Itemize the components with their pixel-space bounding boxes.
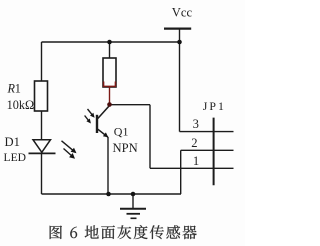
svg-text:Vcc: Vcc xyxy=(172,6,193,20)
svg-text:NPN: NPN xyxy=(113,141,138,155)
svg-text:1: 1 xyxy=(193,154,199,168)
svg-text:1: 1 xyxy=(15,81,21,95)
svg-text:3: 3 xyxy=(193,117,199,131)
svg-text:LED: LED xyxy=(4,151,27,164)
svg-text:Q1: Q1 xyxy=(114,124,129,138)
svg-text:JP1: JP1 xyxy=(203,99,226,113)
svg-text:2: 2 xyxy=(191,136,197,150)
svg-text:D1: D1 xyxy=(5,135,20,149)
svg-text:10kΩ: 10kΩ xyxy=(7,98,35,112)
